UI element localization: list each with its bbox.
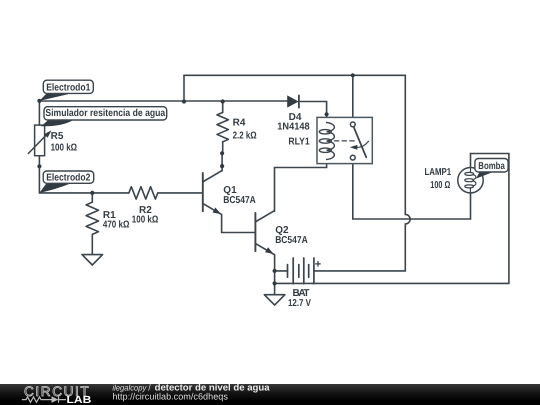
- wire R2 to Q1 base: [158, 192, 202, 194]
- footer bar: [0, 384, 540, 405]
- label R1: [103, 210, 129, 231]
- diode D4: [287, 95, 299, 107]
- logo diode: [52, 396, 59, 403]
- potentiometer R5 arrow: [28, 135, 46, 154]
- wire Q2 collector to relay coil bottom: [275, 160, 327, 212]
- svg-text:LAB: LAB: [67, 395, 92, 405]
- relay RLY1 dashed link: [335, 140, 357, 142]
- svg-text:Electrodo1: Electrodo1: [46, 82, 91, 93]
- wire battery to ground: [274, 271, 276, 295]
- wire node N1 horizontal: [39, 100, 287, 102]
- svg-text:Q1: Q1: [223, 185, 237, 196]
- wire R4 top lead: [222, 102, 224, 113]
- svg-text:LAMP1: LAMP1: [425, 167, 452, 178]
- svg-text:100 kΩ: 100 kΩ: [51, 142, 78, 153]
- flag Electrodo2: [39, 183, 71, 193]
- flag Electrodo1: [39, 94, 71, 101]
- svg-text:100 kΩ: 100 kΩ: [132, 215, 159, 226]
- wire R1 bottom lead: [91, 234, 93, 254]
- wire R4 to Q1 collector: [221, 153, 223, 171]
- label LAMP1: [425, 167, 452, 191]
- svg-text:1N4148: 1N4148: [277, 121, 310, 132]
- logo resistor zigzag: [22, 397, 52, 402]
- wire Q2 emitter to battery: [274, 254, 276, 271]
- wire battery plus lead to top rail: [314, 75, 410, 271]
- wire relay switch common: [352, 75, 354, 121]
- label D4: [277, 112, 310, 132]
- wire R1 top lead: [91, 193, 93, 202]
- label Q2: [275, 225, 308, 246]
- svg-text:+: +: [315, 259, 321, 271]
- ground GND2 (battery): [264, 295, 285, 305]
- label R2: [132, 205, 159, 225]
- wire left riser: [183, 75, 185, 101]
- wire Q1 emitter to Q2 base: [222, 214, 256, 232]
- relay RLY1 coil: [319, 123, 334, 160]
- resistor R1: [86, 202, 98, 234]
- label BAT: [288, 288, 311, 309]
- label Q1: [223, 185, 256, 206]
- wire battery left lead: [275, 270, 288, 272]
- svg-text:BC547A: BC547A: [223, 195, 256, 206]
- transistor Q1: [203, 171, 222, 215]
- wire diode to relay coil top: [300, 102, 327, 123]
- svg-text:BC547A: BC547A: [275, 235, 308, 246]
- wire electrodo1 to R5: [38, 101, 40, 125]
- potentiometer R5 body: [35, 125, 45, 156]
- svg-text:100 Ω: 100 Ω: [430, 180, 450, 191]
- label R4: [233, 117, 257, 141]
- ground GND1 (R1): [82, 255, 103, 265]
- svg-text:R4: R4: [233, 117, 246, 128]
- svg-text:RLY1: RLY1: [288, 136, 310, 147]
- relay RLY1 switch arm: [354, 127, 367, 157]
- flag Simulador resitencia de agua: [41, 120, 73, 126]
- svg-text:12.7 V: 12.7 V: [288, 298, 311, 309]
- transistor Q2: [255, 211, 274, 255]
- resistor R4: [217, 112, 228, 141]
- wire base net left: [39, 192, 128, 194]
- svg-text:470 kΩ: 470 kΩ: [103, 220, 129, 231]
- wire R4 bottom lead: [222, 142, 224, 154]
- resistor R2: [129, 187, 158, 199]
- battery BAT: [288, 258, 314, 284]
- svg-text:Simulador resitencia de agua: Simulador resitencia de agua: [45, 108, 165, 119]
- svg-text:2.2 kΩ: 2.2 kΩ: [233, 131, 257, 142]
- svg-text:R5: R5: [51, 131, 64, 142]
- wire relay contact to lamp bottom with hop: [353, 160, 471, 219]
- svg-text:Bomba: Bomba: [478, 161, 505, 172]
- relay RLY1 actuate arrow: [357, 141, 369, 147]
- relay RLY1 box: [317, 117, 372, 163]
- svg-text:http://circuitlab.com/c6dheqs: http://circuitlab.com/c6dheqs: [112, 391, 228, 401]
- svg-text:Electrodo2: Electrodo2: [46, 173, 91, 184]
- flag Bomba: [476, 172, 493, 179]
- wire R5 to electrodo2: [38, 156, 40, 193]
- lamp LAMP1: [458, 168, 483, 193]
- wire ground rail to lamp top: [275, 154, 509, 284]
- label R5: [51, 131, 78, 153]
- wire top rail: [184, 74, 405, 76]
